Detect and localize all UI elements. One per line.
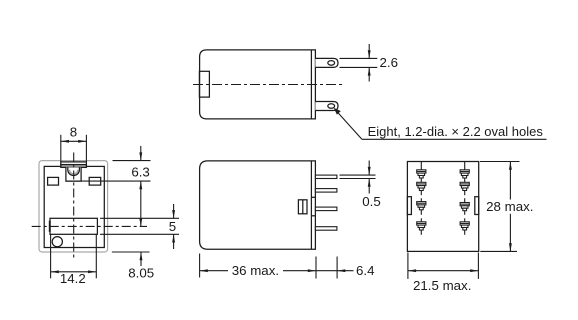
svg-text:6.3: 6.3 [131,165,150,180]
dimension 0.5: arrows [368,161,370,175]
dimension 14.2: extension lines [50,235,52,279]
side view: horizontal centerline [193,84,345,86]
bottom view: right square hole [89,177,101,185]
side view: lower pin [315,102,338,111]
side view: upper pin oval hole [328,61,335,66]
dimension 6.3: extension lines [113,160,151,162]
dimension 8.05: arrow [140,252,142,266]
front view: relay body [200,161,316,249]
dimension 36 max: extension lines [199,254,201,278]
leader line to oval hole note [335,110,362,140]
svg-text:28 max.: 28 max. [486,199,533,214]
bottom view: U keying notch [68,167,80,175]
dimension 6.4: arrow [316,270,337,272]
svg-text:8: 8 [70,125,77,140]
dimension 14.2: arrow line [51,271,97,273]
front view: flange inner line [310,161,312,249]
terminal 3 right [460,203,469,211]
dimension 28 max: arrow line [509,162,511,200]
terminal centerlines right column [464,162,466,196]
dimension 5: extension lines [100,217,179,219]
svg-text:36 max.: 36 max. [232,263,279,278]
dimension 2.6: extension lines [340,57,378,59]
side view: relay body (top view) [200,50,316,119]
svg-text:14.2: 14.2 [60,271,86,286]
bottom view: inner case outline [44,166,104,247]
bottom view: slot rectangle [50,218,97,234]
svg-text:2.6: 2.6 [380,55,399,70]
front view: pin 2 [315,189,337,193]
svg-text:8.05: 8.05 [128,266,154,281]
bottom view: key tab lower band [61,165,87,168]
dimension 21.5 max: extension lines [407,253,409,279]
dimension 5: arrows [173,204,175,218]
bottom view: key tab upper bar [61,162,87,165]
bottom view: outer case outline (gray) [39,161,108,252]
terminal 2 left [417,182,426,190]
front view: pin 1 [315,175,337,178]
terminal view: outline [407,162,478,252]
dimension 6.3: arrows [140,146,142,160]
svg-text:21.5 max.: 21.5 max. [413,278,471,293]
svg-text:5: 5 [169,219,176,234]
bottom view: vertical centerline [73,153,75,259]
side view: upper pin [315,58,338,67]
dimension 8.05: extension line [112,251,150,253]
dimension 6.4: extension line [336,257,338,279]
bottom view: T-slot [66,167,81,181]
terminal 4 left [417,222,426,230]
terminal view: right notch [475,197,479,215]
bottom view: round hole [52,237,62,247]
front view: pin 3 [315,207,337,211]
terminal 3 left [417,202,426,210]
front view: flange tick marks [311,196,315,198]
dimension 8: arrow line [61,140,87,142]
dimension 36 max: arrow line [200,270,228,272]
terminal 1 right [460,170,469,178]
side view: flange inner line [310,50,312,119]
terminal view: left notch [407,197,411,215]
svg-text:Eight, 1.2-dia. × 2.2 oval hol: Eight, 1.2-dia. × 2.2 oval holes [368,124,544,139]
bottom view: slot left tab [49,221,51,232]
terminal 1 left [417,170,426,178]
side view: lower pin oval hole [328,104,335,109]
bottom view: U notch shading [69,170,77,174]
terminal 4 right [460,222,469,230]
dimension 28 max: extension lines [480,161,520,163]
dimension 2.6: arrows [368,44,370,82]
dimension 0.5: extension lines [340,174,376,176]
dimension 21.5 max: arrow line [408,270,479,272]
front view: pin 4 [315,227,337,231]
side view: latch rectangle [199,71,209,97]
dimension 8: extension lines [60,135,62,162]
bottom view: left square hole [48,177,59,185]
bottom view: horizontal centerline [32,225,147,227]
terminal centerlines left column [420,162,422,196]
front view: latch detail [298,200,307,214]
terminal 2 right [460,182,469,190]
terminal symbols [421,162,464,235]
svg-text:6.4: 6.4 [356,263,375,278]
svg-text:0.5: 0.5 [362,194,381,209]
